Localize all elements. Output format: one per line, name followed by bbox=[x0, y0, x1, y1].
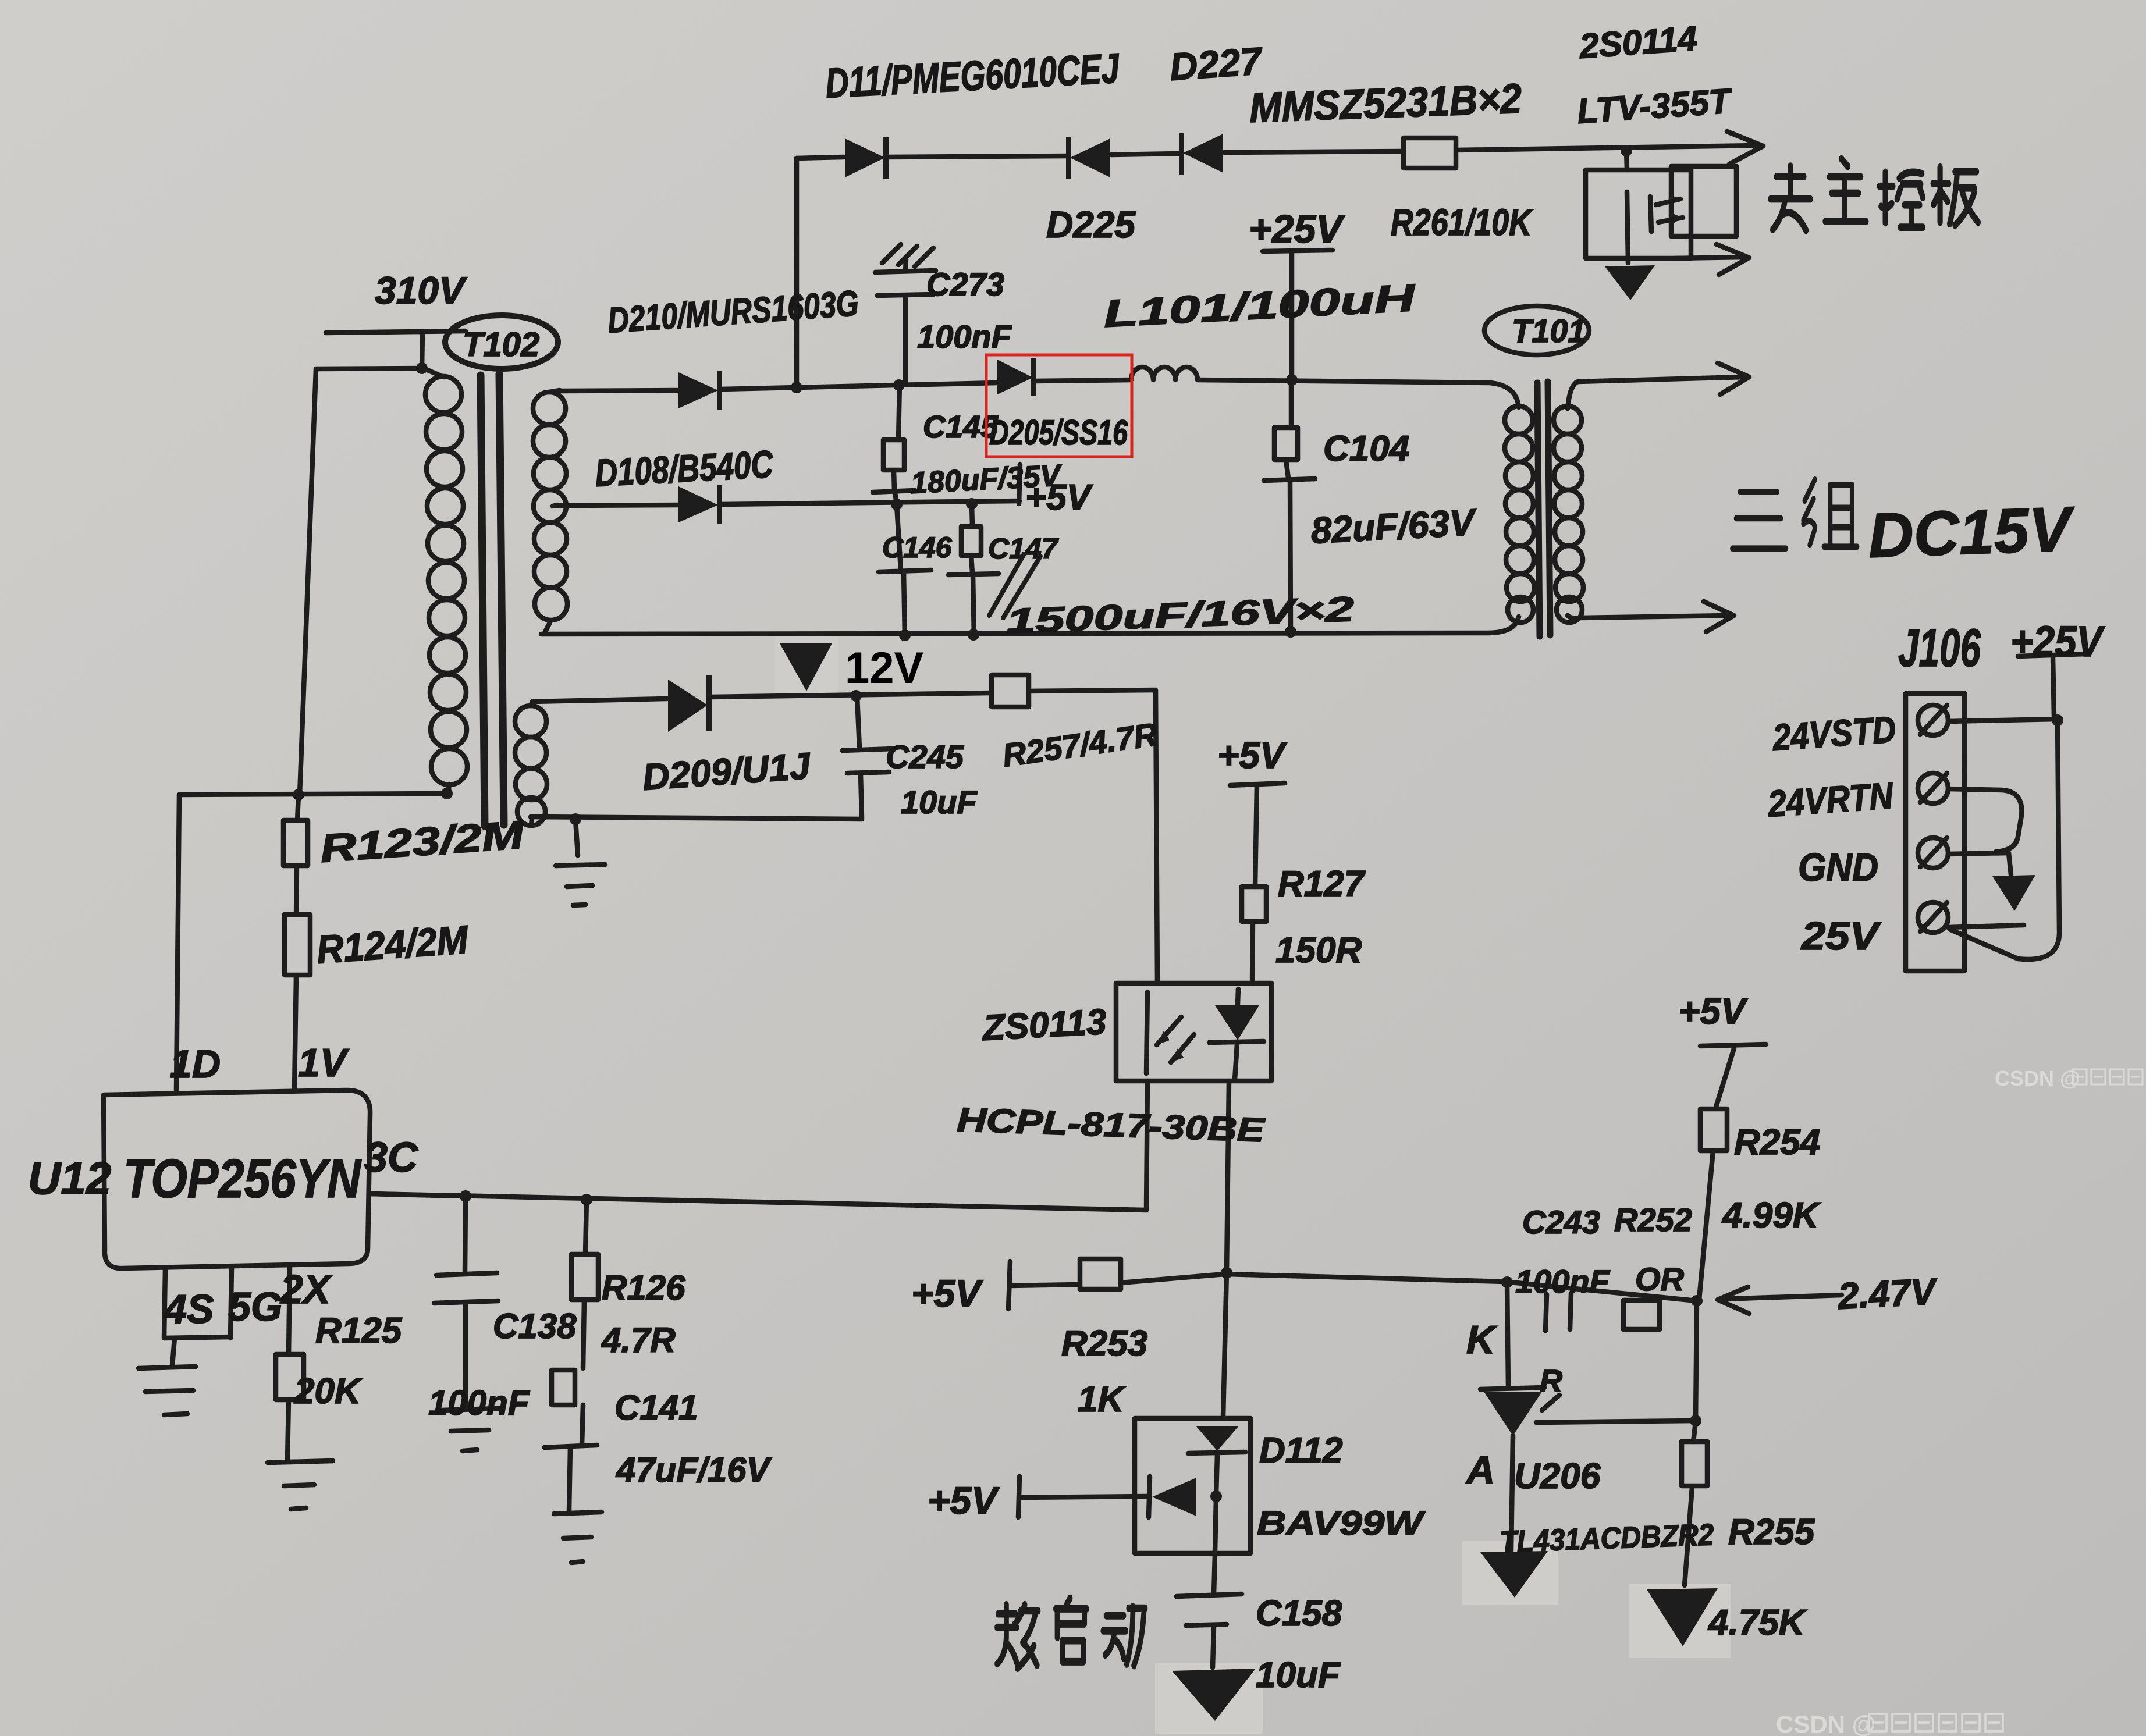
svg-text:T101: T101 bbox=[1512, 312, 1586, 349]
svg-text:C141: C141 bbox=[614, 1388, 698, 1427]
svg-text:4.7R: 4.7R bbox=[601, 1321, 676, 1360]
svg-text:82uF/63V: 82uF/63V bbox=[1310, 501, 1479, 552]
svg-text:C104: C104 bbox=[1323, 429, 1409, 469]
svg-text:1D: 1D bbox=[170, 1042, 221, 1086]
svg-text:+5V: +5V bbox=[1217, 734, 1288, 776]
svg-text:CSDN @: CSDN @ bbox=[1776, 1710, 1876, 1736]
svg-text:TOP256YN: TOP256YN bbox=[123, 1148, 362, 1209]
svg-text:R252: R252 bbox=[1614, 1201, 1692, 1238]
svg-text:K: K bbox=[1466, 1318, 1498, 1362]
svg-text:24VRTN: 24VRTN bbox=[1766, 774, 1895, 825]
svg-text:+5V: +5V bbox=[911, 1272, 983, 1315]
svg-text:C147: C147 bbox=[988, 532, 1059, 565]
svg-text:DC15V: DC15V bbox=[1867, 493, 2077, 571]
svg-text:D227: D227 bbox=[1168, 39, 1265, 88]
svg-text:4S: 4S bbox=[163, 1286, 214, 1332]
svg-text:3C: 3C bbox=[364, 1134, 418, 1181]
svg-text:BAV99W: BAV99W bbox=[1257, 1504, 1426, 1542]
svg-text:ZS0113: ZS0113 bbox=[980, 1002, 1107, 1048]
svg-text:R125: R125 bbox=[315, 1311, 403, 1351]
svg-text:MMSZ5231B×2: MMSZ5231B×2 bbox=[1249, 76, 1523, 131]
svg-text:2S0114: 2S0114 bbox=[1577, 19, 1699, 66]
svg-text:4.75K: 4.75K bbox=[1707, 1603, 1807, 1643]
svg-text:20K: 20K bbox=[294, 1371, 363, 1411]
svg-text:R126: R126 bbox=[602, 1268, 685, 1307]
svg-text:+25V: +25V bbox=[2010, 617, 2105, 666]
svg-text:310V: 310V bbox=[375, 269, 467, 312]
svg-text:100nF: 100nF bbox=[917, 318, 1012, 355]
svg-text:D112: D112 bbox=[1259, 1431, 1343, 1471]
svg-text:OR: OR bbox=[1635, 1261, 1685, 1297]
svg-text:2.47V: 2.47V bbox=[1836, 1270, 1939, 1317]
svg-text:4.99K: 4.99K bbox=[1721, 1196, 1821, 1236]
svg-text:150R: 150R bbox=[1275, 930, 1362, 970]
svg-text:+5V: +5V bbox=[1678, 990, 1749, 1032]
svg-text:D205/SS16: D205/SS16 bbox=[989, 413, 1128, 452]
svg-text:R261/10K: R261/10K bbox=[1391, 201, 1534, 243]
svg-text:R: R bbox=[1540, 1364, 1562, 1399]
svg-text:C158: C158 bbox=[1256, 1593, 1342, 1634]
svg-text:+5V: +5V bbox=[1025, 478, 1093, 518]
svg-text:2X: 2X bbox=[279, 1267, 333, 1312]
svg-text:5G: 5G bbox=[228, 1284, 282, 1329]
svg-text:47uF/16V: 47uF/16V bbox=[616, 1450, 772, 1489]
svg-text:C146: C146 bbox=[882, 531, 953, 564]
svg-text:CSDN @: CSDN @ bbox=[1995, 1066, 2080, 1090]
svg-text:T102: T102 bbox=[463, 326, 539, 364]
svg-text:1K: 1K bbox=[1078, 1379, 1126, 1420]
svg-text:J106: J106 bbox=[1898, 618, 1981, 678]
svg-text:U12: U12 bbox=[28, 1152, 111, 1204]
svg-text:R255: R255 bbox=[1728, 1512, 1815, 1552]
svg-text:R254: R254 bbox=[1734, 1122, 1820, 1162]
svg-text:C243: C243 bbox=[1522, 1204, 1600, 1240]
svg-text:R253: R253 bbox=[1061, 1324, 1147, 1364]
svg-text:10uF: 10uF bbox=[1256, 1655, 1341, 1695]
svg-text:24VSTD: 24VSTD bbox=[1771, 708, 1897, 759]
svg-text:+5V: +5V bbox=[928, 1479, 1000, 1522]
svg-text:U206: U206 bbox=[1514, 1456, 1601, 1496]
svg-text:10uF: 10uF bbox=[901, 784, 978, 820]
svg-text:100nF: 100nF bbox=[428, 1383, 530, 1422]
svg-text:1V: 1V bbox=[298, 1041, 350, 1085]
svg-text:C245: C245 bbox=[886, 738, 964, 775]
svg-text:C138: C138 bbox=[493, 1307, 577, 1346]
svg-text:C273: C273 bbox=[926, 266, 1004, 303]
svg-text:+25V: +25V bbox=[1249, 207, 1345, 251]
svg-text:GND: GND bbox=[1798, 845, 1878, 890]
svg-text:25V: 25V bbox=[1800, 914, 1882, 958]
svg-text:A: A bbox=[1465, 1448, 1495, 1492]
svg-text:100nF: 100nF bbox=[1515, 1263, 1611, 1300]
svg-text:D225: D225 bbox=[1046, 204, 1136, 246]
svg-text:12V: 12V bbox=[845, 643, 924, 693]
svg-text:R127: R127 bbox=[1278, 864, 1366, 904]
